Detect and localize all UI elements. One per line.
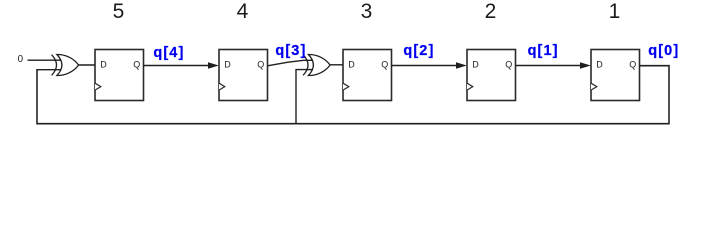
svg-text:3: 3 — [361, 0, 373, 23]
svg-text:Q: Q — [257, 59, 264, 69]
svg-text:q[2]: q[2] — [403, 43, 434, 59]
svg-text:4: 4 — [237, 0, 249, 23]
svg-text:5: 5 — [113, 0, 125, 23]
svg-text:q[4]: q[4] — [153, 45, 184, 61]
svg-text:Q: Q — [133, 59, 140, 69]
svg-text:2: 2 — [485, 0, 497, 23]
svg-text:D: D — [348, 59, 355, 69]
svg-text:D: D — [472, 59, 479, 69]
svg-text:1: 1 — [609, 0, 621, 23]
svg-text:D: D — [596, 59, 603, 69]
svg-text:Q: Q — [381, 59, 388, 69]
svg-text:0: 0 — [18, 54, 24, 65]
svg-text:q[1]: q[1] — [528, 43, 559, 59]
svg-text:q[3]: q[3] — [275, 43, 306, 59]
svg-text:q[0]: q[0] — [648, 43, 679, 59]
svg-text:D: D — [224, 59, 231, 69]
svg-text:Q: Q — [505, 59, 512, 69]
svg-text:D: D — [100, 59, 107, 69]
svg-text:Q: Q — [629, 59, 636, 69]
